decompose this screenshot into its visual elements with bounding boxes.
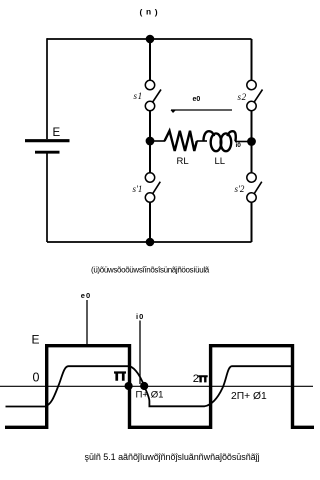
svg-text:n: n — [146, 8, 151, 18]
label pi — [114, 371, 126, 380]
wire load middle — [197, 140, 208, 142]
wire bottom horizontal — [47, 241, 252, 243]
wire right branch lower — [251, 202, 253, 242]
svg-text:şūlñ 5.1 aãñõĵîuwõĵñnõĵsluãnñw: şūlñ 5.1 aãñõĵîuwõĵñnõĵsluãnñwñaĵõõsūsñã… — [85, 452, 260, 462]
wire i0 pointer line — [139, 321, 141, 385]
svg-text:LL: LL — [215, 156, 226, 167]
node pi dot — [125, 382, 133, 390]
label (ก) figure part marker — [139, 8, 159, 19]
resistor RL — [165, 131, 197, 151]
svg-text:e0: e0 — [193, 96, 201, 103]
wire right branch between node and s'2 — [251, 142, 253, 173]
wire e0 pointer line — [86, 300, 88, 344]
wire middle branch upper — [149, 39, 151, 80]
wire left lower — [46, 154, 48, 243]
svg-text:i0: i0 — [136, 312, 144, 321]
svg-text:(ü)õüwsõoõüwsîīnõsîsünãjñöosíü: (ü)õüwsõoõüwsîīnõsîsünãjñöosíüulã — [91, 266, 210, 275]
svg-text:0: 0 — [33, 371, 40, 385]
node top junction — [146, 35, 155, 44]
svg-text:2: 2 — [193, 373, 199, 385]
inductor LL — [203, 131, 235, 141]
switch s1 — [145, 80, 154, 89]
node bottom junction — [146, 238, 155, 247]
battery E short plate — [35, 151, 60, 154]
node middle left — [146, 137, 155, 146]
wire right branch between s2 and node — [251, 111, 253, 142]
svg-text:): ) — [154, 8, 159, 18]
axis horizontal — [0, 385, 313, 387]
wire middle branch between node and s'1 — [149, 141, 151, 173]
waveform e0 square wave — [5, 346, 314, 428]
wire middle branch lower — [149, 202, 151, 242]
node middle right — [247, 137, 256, 146]
svg-text:e0: e0 — [81, 291, 91, 300]
svg-text:E: E — [32, 333, 40, 347]
wire load left — [150, 140, 165, 142]
svg-text:s'2: s'2 — [235, 184, 245, 194]
switch s2 — [247, 80, 256, 89]
svg-text:s2: s2 — [238, 92, 247, 102]
wire top horizontal — [47, 38, 252, 40]
svg-text:2Π+ Ø1: 2Π+ Ø1 — [231, 391, 267, 402]
svg-text:s1: s1 — [134, 91, 143, 101]
arrow e0 reference — [171, 109, 232, 111]
svg-text:i0: i0 — [236, 142, 242, 149]
svg-text:RL: RL — [177, 156, 189, 167]
wire middle branch between s1 and node — [149, 111, 151, 141]
switch s'2 — [247, 173, 256, 182]
waveform i0 current — [6, 366, 292, 406]
svg-text:Π+ Ø1: Π+ Ø1 — [136, 390, 164, 401]
node pi+phi dot — [140, 382, 148, 390]
switch s'1 — [145, 173, 154, 182]
battery E long plate — [25, 139, 70, 142]
wire left upper — [46, 38, 48, 139]
wire load right — [235, 141, 248, 143]
svg-text:E: E — [53, 127, 61, 139]
wire right branch upper — [251, 39, 253, 80]
svg-text:(: ( — [139, 8, 144, 18]
svg-text:s'1: s'1 — [133, 184, 143, 194]
